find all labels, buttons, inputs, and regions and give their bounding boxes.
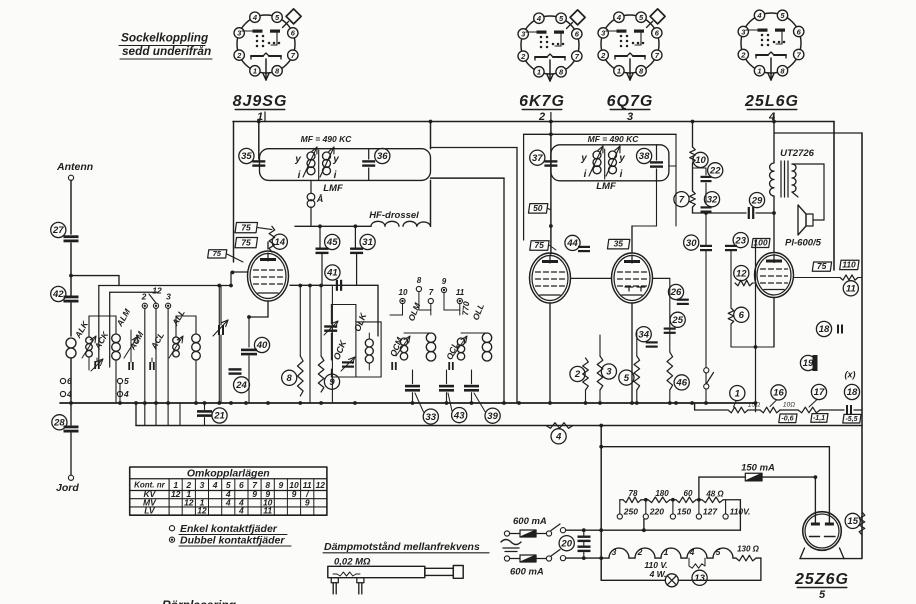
svg-text:2: 2: [600, 51, 606, 60]
svg-text:37: 37: [532, 153, 543, 164]
svg-text:48 Ω: 48 Ω: [705, 490, 724, 499]
svg-text:7: 7: [429, 288, 434, 297]
svg-text:29: 29: [751, 195, 763, 206]
svg-text:2: 2: [574, 369, 581, 380]
svg-text:220: 220: [649, 507, 664, 517]
svg-text:50: 50: [533, 203, 543, 213]
svg-text:-1,1: -1,1: [813, 415, 825, 422]
svg-text:sedd underifrån: sedd underifrån: [122, 44, 211, 58]
svg-text:16: 16: [773, 388, 784, 399]
svg-text:Sockelkoppling: Sockelkoppling: [121, 31, 208, 45]
svg-text:33: 33: [426, 412, 437, 423]
svg-text:-5,5: -5,5: [845, 416, 857, 423]
svg-text:4: 4: [616, 13, 622, 22]
svg-text:LMF: LMF: [596, 181, 616, 192]
svg-text:75: 75: [817, 261, 827, 271]
svg-text:12: 12: [736, 268, 747, 279]
svg-text:110: 110: [842, 259, 856, 269]
svg-text:31: 31: [362, 237, 373, 248]
svg-text:5: 5: [624, 373, 630, 384]
svg-text:12: 12: [316, 480, 326, 490]
svg-text:45: 45: [326, 237, 338, 248]
svg-text:36: 36: [377, 151, 388, 162]
svg-text:130 Ω: 130 Ω: [737, 545, 760, 554]
svg-text:21: 21: [213, 411, 225, 422]
svg-text:41: 41: [326, 268, 338, 279]
svg-text:2: 2: [236, 51, 242, 60]
svg-text:25Z6G: 25Z6G: [794, 571, 849, 588]
svg-text:Å: Å: [316, 194, 324, 204]
svg-text:12: 12: [184, 497, 194, 507]
svg-text:1: 1: [757, 67, 761, 76]
svg-text:34: 34: [638, 329, 649, 340]
svg-text:4: 4: [123, 389, 129, 399]
svg-text:y: y: [618, 153, 625, 164]
svg-text:4: 4: [756, 11, 762, 20]
svg-text:6: 6: [739, 310, 745, 321]
svg-text:1: 1: [617, 67, 621, 76]
svg-text:1: 1: [735, 388, 740, 399]
svg-text:10: 10: [399, 288, 408, 297]
svg-text:23: 23: [734, 235, 746, 246]
svg-text:1: 1: [253, 67, 257, 76]
svg-text:2: 2: [637, 547, 643, 557]
svg-text:8J9SG: 8J9SG: [233, 93, 288, 110]
svg-text:19: 19: [803, 358, 814, 369]
svg-text:38: 38: [639, 151, 650, 162]
svg-text:4: 4: [252, 13, 258, 22]
svg-text:Dubbel kontaktfjäder: Dubbel kontaktfjäder: [180, 534, 285, 546]
svg-text:5: 5: [819, 589, 826, 601]
svg-text:Pl-600/5: Pl-600/5: [785, 238, 822, 249]
svg-text:27: 27: [52, 225, 64, 236]
svg-text:HF-drossel: HF-drossel: [369, 210, 419, 221]
svg-text:42: 42: [52, 289, 64, 300]
svg-text:-0,6: -0,6: [781, 415, 793, 422]
svg-text:i: i: [298, 170, 301, 181]
svg-text:LMF: LMF: [323, 183, 343, 194]
svg-text:Enkel kontaktfjäder: Enkel kontaktfjäder: [180, 523, 278, 535]
svg-text:25L6G: 25L6G: [744, 93, 799, 110]
svg-text:3: 3: [606, 367, 612, 378]
svg-text:75: 75: [213, 249, 222, 258]
svg-text:4: 4: [238, 506, 244, 516]
svg-text:9: 9: [442, 277, 447, 286]
svg-text:5: 5: [716, 547, 721, 557]
svg-text:75: 75: [534, 240, 544, 250]
svg-text:44: 44: [566, 238, 578, 249]
svg-text:32: 32: [707, 194, 718, 205]
svg-text:2: 2: [520, 52, 526, 61]
svg-text:i: i: [620, 169, 623, 180]
svg-text:40: 40: [256, 340, 268, 351]
svg-text:26: 26: [670, 287, 682, 298]
svg-text:4: 4: [66, 389, 72, 399]
svg-text:35: 35: [614, 239, 624, 249]
svg-text:75: 75: [241, 223, 251, 233]
svg-text:250: 250: [623, 507, 638, 517]
svg-text:5: 5: [124, 376, 129, 386]
svg-text:4: 4: [536, 14, 542, 23]
svg-text:24: 24: [235, 380, 247, 391]
svg-text:i: i: [584, 169, 587, 180]
svg-text:14: 14: [275, 237, 286, 248]
svg-text:1: 1: [664, 547, 669, 557]
svg-text:6: 6: [67, 376, 72, 386]
svg-text:UT2726: UT2726: [780, 148, 815, 159]
svg-text:12: 12: [152, 286, 162, 296]
svg-text:10Ω: 10Ω: [783, 402, 795, 409]
svg-text:30: 30: [686, 238, 697, 249]
svg-text:1: 1: [537, 68, 541, 77]
svg-text:15Ω: 15Ω: [748, 402, 760, 409]
svg-text:4: 4: [212, 480, 218, 490]
svg-text:60: 60: [684, 489, 693, 498]
svg-text:10: 10: [695, 155, 706, 166]
svg-text:20: 20: [560, 538, 572, 549]
svg-text:4: 4: [689, 547, 695, 557]
svg-text:4 W.: 4 W.: [649, 569, 667, 579]
svg-text:9: 9: [279, 480, 284, 490]
svg-text:6Q7G: 6Q7G: [607, 93, 654, 110]
svg-text:Omkopplarlägen: Omkopplarlägen: [187, 468, 270, 480]
svg-text:6K7G: 6K7G: [519, 93, 565, 110]
svg-text:11: 11: [456, 288, 465, 297]
svg-text:600 mA: 600 mA: [513, 516, 547, 527]
svg-text:127: 127: [703, 507, 718, 517]
svg-text:3: 3: [612, 547, 617, 557]
svg-text:9: 9: [252, 489, 257, 499]
svg-text:LV: LV: [144, 506, 156, 516]
svg-text:25: 25: [671, 315, 683, 326]
svg-text:9: 9: [305, 497, 310, 507]
svg-text:43: 43: [453, 410, 465, 421]
svg-text:78: 78: [629, 489, 638, 498]
svg-text:3: 3: [200, 480, 205, 490]
svg-text:75: 75: [241, 238, 251, 248]
svg-text:150: 150: [677, 507, 691, 517]
svg-text:3: 3: [166, 292, 171, 302]
svg-text:18: 18: [847, 387, 858, 398]
svg-text:600 mA: 600 mA: [510, 567, 544, 578]
svg-text:Jord: Jord: [56, 482, 79, 494]
svg-text:4: 4: [555, 432, 562, 443]
svg-text:6: 6: [239, 480, 244, 490]
svg-text:13: 13: [694, 573, 705, 584]
svg-text:46: 46: [675, 378, 687, 389]
svg-text:100: 100: [753, 237, 767, 247]
svg-text:15: 15: [847, 516, 858, 527]
svg-text:(x): (x): [845, 370, 856, 380]
svg-text:150 mA: 150 mA: [741, 463, 775, 474]
svg-text:4: 4: [225, 497, 231, 507]
svg-text:8: 8: [417, 276, 422, 285]
svg-text:Antenn: Antenn: [56, 161, 93, 173]
svg-text:y: y: [332, 154, 339, 165]
svg-text:MF = 490 KC: MF = 490 KC: [588, 134, 640, 144]
svg-text:y: y: [294, 154, 301, 165]
svg-text:7: 7: [679, 194, 685, 205]
svg-text:12: 12: [197, 506, 207, 516]
svg-text:18: 18: [819, 324, 830, 335]
svg-text:MF = 490 KC: MF = 490 KC: [301, 134, 353, 144]
svg-text:y: y: [580, 153, 587, 164]
svg-text:2: 2: [141, 292, 147, 302]
svg-text:12: 12: [171, 489, 181, 499]
svg-text:i: i: [334, 170, 337, 181]
svg-text:17: 17: [814, 387, 825, 398]
svg-text:Dämpmotstånd mellanfrekvens: Dämpmotstånd mellanfrekvens: [324, 541, 480, 553]
svg-text:22: 22: [709, 166, 721, 177]
svg-text:39: 39: [487, 411, 498, 422]
svg-text:2: 2: [740, 50, 746, 59]
svg-text:11: 11: [263, 506, 272, 516]
svg-text:Rörplacering: Rörplacering: [162, 598, 237, 604]
svg-text:35: 35: [241, 151, 252, 162]
svg-text:11: 11: [846, 284, 856, 295]
svg-text:9: 9: [292, 489, 297, 499]
svg-text:8: 8: [287, 373, 293, 384]
svg-text:180: 180: [655, 489, 669, 498]
